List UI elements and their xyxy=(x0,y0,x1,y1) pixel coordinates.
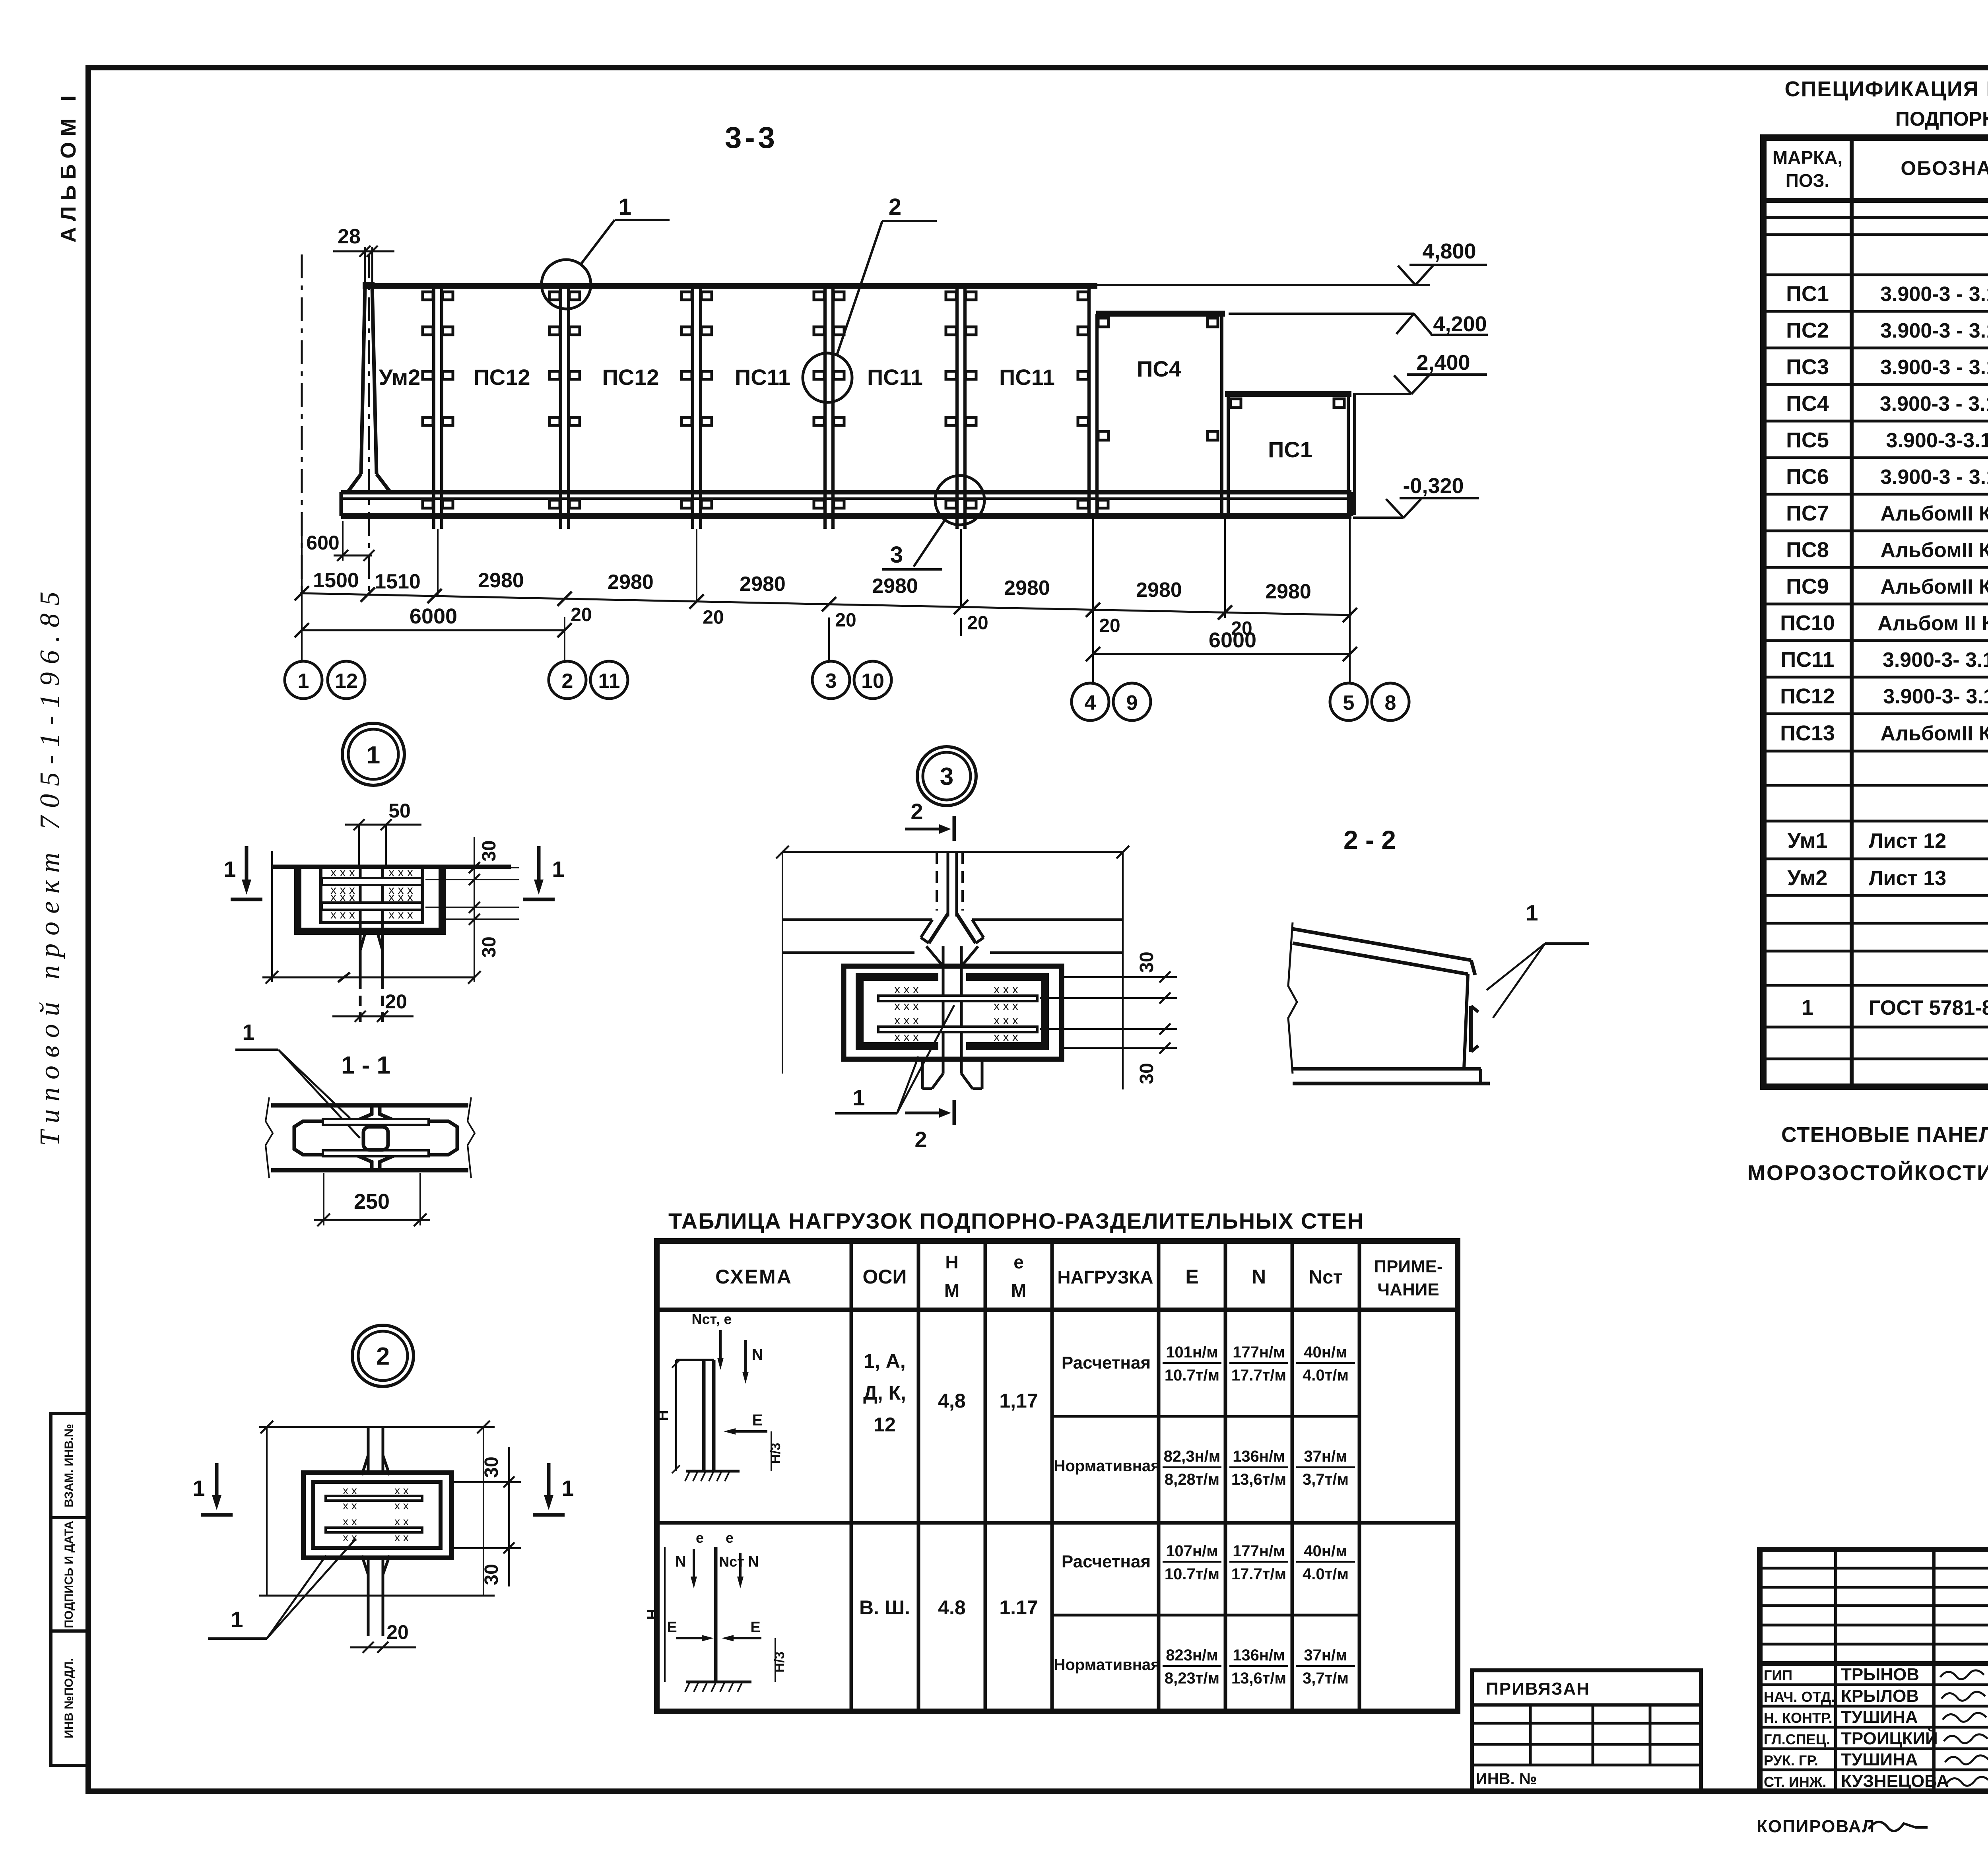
svg-text:4,8: 4,8 xyxy=(938,1390,966,1412)
detail 3 stakan outer xyxy=(844,966,1062,1059)
svg-text:АльбомII КЖИ-31.00: АльбомII КЖИ-31.00 xyxy=(1880,722,1988,745)
svg-text:СТЕНОВЫЕ ПАНЕЛИ ВЫПОЛНИТЬ И: СТЕНОВЫЕ ПАНЕЛИ ВЫПОЛНИТЬ ИЗ БЕТОНА С МА… xyxy=(1781,1122,1988,1147)
svg-text:30: 30 xyxy=(481,1564,502,1585)
panel joint at x=1752 xyxy=(691,286,694,529)
svg-text:6000: 6000 xyxy=(410,604,457,628)
elevation mark +4.200 xyxy=(1414,314,1431,334)
svg-text:ИНВ №ПОДЛ.: ИНВ №ПОДЛ. xyxy=(62,1658,76,1738)
spec table horizontal lines xyxy=(1763,216,1988,219)
svg-text:Нормативная: Нормативная xyxy=(1054,1656,1160,1674)
detail 3 stem through stakan xyxy=(942,946,945,1058)
svg-text:М: М xyxy=(944,1280,959,1301)
svg-text:N: N xyxy=(752,1346,763,1363)
svg-text:4.8: 4.8 xyxy=(938,1596,966,1619)
title block outer xyxy=(1760,1549,1988,1791)
detail 1 dim 20 stem xyxy=(332,1016,414,1017)
schema row1 H dim xyxy=(675,1360,677,1471)
monolith column Um2 xyxy=(361,286,365,474)
svg-text:x x x: x x x xyxy=(994,1000,1018,1013)
svg-text:x x x: x x x xyxy=(894,1000,919,1013)
schema row2 H dim xyxy=(664,1547,666,1682)
svg-text:2 - 2: 2 - 2 xyxy=(1343,825,1396,854)
detail circle 1 on section xyxy=(542,260,591,309)
panel joint at x=2417 xyxy=(955,286,959,529)
svg-text:ПРИМЕ-: ПРИМЕ- xyxy=(1374,1257,1442,1276)
svg-text:3,7т/м: 3,7т/м xyxy=(1303,1670,1349,1687)
detail 3 stem below stakan xyxy=(942,1059,945,1074)
svg-text:x x x: x x x xyxy=(388,908,413,921)
svg-text:12: 12 xyxy=(874,1414,896,1436)
svg-text:1: 1 xyxy=(1526,900,1538,925)
svg-text:x x: x x xyxy=(394,1499,409,1512)
svg-text:Лист 13: Лист 13 xyxy=(1869,867,1946,890)
svg-text:1: 1 xyxy=(367,742,380,769)
svg-text:x x x: x x x xyxy=(388,866,413,879)
section mark 2 bottom at detail 3 xyxy=(905,1112,939,1115)
left 6000 dim xyxy=(302,629,565,631)
detail 2 section marks 1 xyxy=(215,1463,219,1495)
privyazan table xyxy=(1472,1670,1701,1791)
schema row1 ground hatch xyxy=(686,1470,740,1473)
svg-text:РУК. ГР.: РУК. ГР. xyxy=(1764,1752,1818,1769)
svg-text:ПС10: ПС10 xyxy=(1780,611,1835,635)
svg-text:АЛЬБОМ I: АЛЬБОМ I xyxy=(56,90,80,243)
2-2 right end xyxy=(1471,960,1475,975)
svg-text:СХЕМА: СХЕМА xyxy=(715,1266,792,1288)
panel top line at +4.800 xyxy=(363,283,1097,289)
svg-text:1: 1 xyxy=(561,1476,574,1501)
svg-text:40н/м: 40н/м xyxy=(1304,1344,1347,1361)
2-2 connector bracket xyxy=(1469,1006,1473,1052)
svg-text:20: 20 xyxy=(967,613,988,634)
svg-text:ПС6: ПС6 xyxy=(1786,465,1829,489)
detail 3 panel joint verticals xyxy=(947,852,949,916)
detail 3 upper slab lines xyxy=(783,918,932,921)
svg-text:40н/м: 40н/м xyxy=(1304,1542,1347,1560)
svg-text:ПС2: ПС2 xyxy=(1786,318,1829,342)
svg-text:ПС12: ПС12 xyxy=(1780,684,1835,708)
2-2 left break xyxy=(1288,922,1297,1074)
svg-text:ГИП: ГИП xyxy=(1764,1667,1792,1683)
svg-text:8: 8 xyxy=(1385,691,1396,715)
svg-text:20: 20 xyxy=(386,1621,409,1643)
svg-text:Расчетная: Расчетная xyxy=(1062,1552,1151,1571)
svg-text:ПС7: ПС7 xyxy=(1786,501,1829,525)
svg-text:-0,320: -0,320 xyxy=(1403,474,1464,498)
svg-text:3.900-3 - 3.10.1 05.00: 3.900-3 - 3.10.1 05.00 xyxy=(1880,356,1988,379)
svg-text:20: 20 xyxy=(703,607,724,628)
detail 2 block inner xyxy=(313,1482,441,1548)
svg-text:ТРЫНОВ: ТРЫНОВ xyxy=(1841,1665,1919,1684)
svg-text:x x x: x x x xyxy=(330,908,355,921)
svg-text:1: 1 xyxy=(552,856,564,882)
svg-text:x x x: x x x xyxy=(894,1014,919,1027)
detail 3 right dims 30 xyxy=(1064,976,1177,978)
svg-text:ПС13: ПС13 xyxy=(1780,721,1835,745)
svg-text:30: 30 xyxy=(1136,1063,1157,1084)
load table subrow dividers xyxy=(1052,1415,1359,1418)
detail 2 dim 20 xyxy=(350,1647,416,1649)
detail 1 recess inner U xyxy=(321,868,423,922)
svg-text:3.900-3-3.10.1.05.00: 3.900-3-3.10.1.05.00 xyxy=(1886,429,1988,452)
svg-text:Н: Н xyxy=(945,1252,958,1272)
detail 1-1 panel band bottom line xyxy=(271,1168,468,1173)
svg-text:x x x: x x x xyxy=(388,891,413,904)
svg-text:136н/м: 136н/м xyxy=(1233,1647,1285,1664)
svg-text:Е: Е xyxy=(667,1619,677,1636)
schema row1 H/3 dim xyxy=(771,1431,772,1471)
svg-text:1 - 1: 1 - 1 xyxy=(341,1052,390,1079)
svg-text:Н: Н xyxy=(645,1609,661,1619)
svg-text:1: 1 xyxy=(1802,996,1813,1019)
dim 28 at column top xyxy=(364,247,366,283)
svg-text:ПС11: ПС11 xyxy=(735,365,790,390)
svg-text:ПОЗ.: ПОЗ. xyxy=(1786,170,1829,191)
svg-text:1: 1 xyxy=(231,1607,243,1632)
detail 3 stakan left cup xyxy=(860,977,938,1046)
svg-text:1: 1 xyxy=(619,194,631,220)
svg-text:3.900-3 - 3.10.1 05.00: 3.900-3 - 3.10.1 05.00 xyxy=(1880,283,1988,306)
axis circles 3 10 xyxy=(812,661,850,699)
svg-text:2980: 2980 xyxy=(872,575,918,598)
svg-text:ПС9: ПС9 xyxy=(1786,575,1829,598)
svg-text:2: 2 xyxy=(914,1127,927,1152)
svg-text:е: е xyxy=(1013,1252,1024,1272)
svg-text:ОБОЗНАЧЕНИЕ: ОБОЗНАЧЕНИЕ xyxy=(1901,157,1988,179)
column Um2 centerline xyxy=(368,254,370,592)
svg-text:3.900-3- 3.10.1-05.00: 3.900-3- 3.10.1-05.00 xyxy=(1883,649,1988,672)
detail 1-1 panel band top line xyxy=(271,1103,468,1108)
svg-text:Альбом II КЖИ-30.00: Альбом II КЖИ-30.00 xyxy=(1877,612,1988,635)
svg-text:ПС1: ПС1 xyxy=(1786,282,1829,306)
panel PS1 right edge xyxy=(1347,394,1350,515)
svg-text:30: 30 xyxy=(479,840,500,861)
schema sketch row1 wall xyxy=(702,1360,706,1471)
detail 3 tie bars xyxy=(878,996,1037,1001)
svg-text:ПОДПОРНО- РАЗДЕЛИТЕЛЬНЫХ СТЕН: ПОДПОРНО- РАЗДЕЛИТЕЛЬНЫХ СТЕН xyxy=(1895,108,1988,130)
svg-text:x x: x x xyxy=(343,1515,357,1528)
svg-text:2980: 2980 xyxy=(740,573,786,596)
svg-text:2980: 2980 xyxy=(608,571,654,594)
load table header bottom line xyxy=(657,1308,1458,1312)
detail 1-1 left panel end xyxy=(294,1106,372,1169)
svg-text:ПС11: ПС11 xyxy=(999,365,1055,390)
svg-text:Н/3: Н/3 xyxy=(768,1443,783,1464)
svg-text:АльбомII КЖИ-29.00: АльбомII КЖИ-29.00 xyxy=(1880,575,1988,598)
svg-text:ПС11: ПС11 xyxy=(867,365,923,390)
panel PS1 top line at +2.400 xyxy=(1225,391,1351,397)
svg-text:ТУШИНА: ТУШИНА xyxy=(1841,1750,1918,1769)
svg-text:8,28т/м: 8,28т/м xyxy=(1165,1471,1219,1488)
svg-text:3.900-3 - 3.10.1-05.00: 3.900-3 - 3.10.1-05.00 xyxy=(1880,392,1988,416)
svg-text:12: 12 xyxy=(335,670,358,693)
svg-text:1: 1 xyxy=(242,1019,254,1045)
detail 2 tie bars xyxy=(326,1496,422,1501)
title block main divider xyxy=(1760,1661,1988,1666)
svg-text:ПС12: ПС12 xyxy=(602,365,659,390)
svg-text:ПС3: ПС3 xyxy=(1786,355,1829,379)
foundation beam xyxy=(341,490,1351,495)
svg-text:Nст: Nст xyxy=(1309,1267,1343,1288)
svg-text:4.0т/м: 4.0т/м xyxy=(1303,1367,1349,1384)
svg-text:Ум2: Ум2 xyxy=(379,365,421,390)
svg-text:ПС1: ПС1 xyxy=(1268,437,1312,462)
axis circles 4 9 xyxy=(1072,683,1109,720)
2-2 sloped top lines xyxy=(1293,929,1471,960)
svg-text:600: 600 xyxy=(306,532,339,554)
detail 2 bottom dim line xyxy=(259,1595,495,1597)
personnel rows xyxy=(1760,1683,1988,1686)
svg-text:10.7т/м: 10.7т/м xyxy=(1165,1367,1219,1384)
svg-text:3: 3 xyxy=(890,542,903,568)
svg-text:20: 20 xyxy=(385,990,407,1013)
svg-text:2: 2 xyxy=(376,1343,390,1370)
svg-text:3: 3 xyxy=(940,763,953,790)
svg-text:250: 250 xyxy=(354,1190,390,1214)
detail 1-1 central void xyxy=(363,1127,388,1150)
svg-text:x x x: x x x xyxy=(330,891,355,904)
svg-text:x x x: x x x xyxy=(894,1031,919,1044)
svg-text:136н/м: 136н/м xyxy=(1233,1448,1285,1465)
svg-text:ПС5: ПС5 xyxy=(1786,428,1829,452)
svg-text:ТАБЛИЦА НАГРУЗОК ПОДПОРНО-РА: ТАБЛИЦА НАГРУЗОК ПОДПОРНО-РАЗДЕЛИТЕЛЬНЫХ… xyxy=(668,1208,1364,1233)
svg-text:37н/м: 37н/м xyxy=(1304,1448,1347,1465)
svg-text:x x x: x x x xyxy=(330,866,355,879)
dim 600 xyxy=(334,555,372,557)
svg-text:ГЛ.СПЕЦ.: ГЛ.СПЕЦ. xyxy=(1764,1731,1830,1748)
detail 1 recess outer U xyxy=(298,868,442,931)
detail 2 right dims 30 xyxy=(453,1481,521,1483)
svg-text:ОСИ: ОСИ xyxy=(863,1266,907,1288)
axis circles 5 8 xyxy=(1330,683,1367,720)
svg-text:СПЕЦИФИКАЦИЯ К СХЕМЕ РАСПОЛО: СПЕЦИФИКАЦИЯ К СХЕМЕ РАСПОЛОЖЕНИЯ СТЕНОВ… xyxy=(1784,77,1988,101)
svg-text:1, А,: 1, А, xyxy=(864,1350,906,1372)
svg-text:3.900-3- 3.10.1 05.00: 3.900-3- 3.10.1 05.00 xyxy=(1883,685,1988,708)
svg-text:50: 50 xyxy=(388,800,411,822)
svg-text:Н/3: Н/3 xyxy=(772,1652,787,1673)
svg-text:3: 3 xyxy=(825,670,837,693)
svg-text:28: 28 xyxy=(338,225,361,248)
svg-text:НАЧ. ОТД.: НАЧ. ОТД. xyxy=(1764,1689,1835,1705)
svg-text:11: 11 xyxy=(598,670,620,693)
svg-text:x x x: x x x xyxy=(994,983,1018,996)
level line -0.320 xyxy=(1353,516,1404,519)
svg-text:Н. КОНТР.: Н. КОНТР. xyxy=(1764,1710,1833,1726)
svg-text:ПС4: ПС4 xyxy=(1137,356,1181,381)
svg-text:1: 1 xyxy=(223,856,236,882)
svg-text:2980: 2980 xyxy=(1265,580,1311,603)
svg-text:x x: x x xyxy=(394,1484,409,1497)
svg-text:2,400: 2,400 xyxy=(1416,351,1470,375)
dim 50 at detail 1 xyxy=(345,824,421,826)
svg-text:20: 20 xyxy=(835,610,856,631)
svg-text:Ум1: Ум1 xyxy=(1788,829,1828,852)
svg-text:N: N xyxy=(1252,1266,1266,1288)
svg-text:Е: Е xyxy=(750,1619,760,1636)
svg-text:НАГРУЗКА: НАГРУЗКА xyxy=(1057,1267,1153,1287)
detail 2 block outer xyxy=(303,1473,452,1558)
schema row2 ground hatch xyxy=(686,1681,751,1683)
detail 1-1 left break xyxy=(266,1097,273,1178)
svg-text:Д, К,: Д, К, xyxy=(863,1382,906,1404)
svg-text:4.0т/м: 4.0т/м xyxy=(1303,1565,1349,1583)
detail circle 3 on section xyxy=(935,476,984,525)
svg-text:10.7т/м: 10.7т/м xyxy=(1165,1565,1219,1583)
svg-text:М: М xyxy=(1011,1280,1026,1301)
detail 3 stakan right cup xyxy=(966,977,1045,1046)
detail 1-1 right panel end xyxy=(380,1106,457,1169)
svg-text:37н/м: 37н/м xyxy=(1304,1647,1347,1664)
svg-text:13,6т/м: 13,6т/м xyxy=(1231,1670,1286,1687)
load table column lines xyxy=(850,1241,853,1711)
spec table column lines xyxy=(1850,138,1854,1087)
detail 2 stem upper xyxy=(367,1427,370,1473)
svg-text:20: 20 xyxy=(571,604,592,625)
svg-text:2980: 2980 xyxy=(1004,577,1050,600)
svg-text:x x x: x x x xyxy=(994,1031,1018,1044)
spec table header row line xyxy=(1763,198,1988,203)
svg-text:x x: x x xyxy=(343,1484,357,1497)
svg-text:ЧАНИЕ: ЧАНИЕ xyxy=(1377,1280,1439,1299)
svg-text:823н/м: 823н/м xyxy=(1166,1647,1218,1664)
svg-text:N: N xyxy=(748,1553,759,1570)
svg-text:4: 4 xyxy=(1085,691,1096,715)
svg-text:1.17: 1.17 xyxy=(999,1596,1038,1619)
svg-text:1: 1 xyxy=(298,670,309,693)
svg-text:Лист 12: Лист 12 xyxy=(1869,829,1946,852)
svg-text:2980: 2980 xyxy=(478,569,524,592)
panel PS4 top line at +4.200 xyxy=(1096,311,1225,317)
svg-text:x x: x x xyxy=(343,1499,357,1512)
svg-text:17.7т/м: 17.7т/м xyxy=(1231,1565,1286,1583)
svg-text:Е: Е xyxy=(752,1412,763,1429)
elevation mark +2.400 xyxy=(1411,375,1429,394)
svg-text:6000: 6000 xyxy=(1209,628,1256,652)
svg-text:5: 5 xyxy=(1343,691,1355,715)
detail 3 top extension line xyxy=(782,851,1123,853)
svg-text:ПОДПИСЬ И ДАТА: ПОДПИСЬ И ДАТА xyxy=(62,1521,76,1628)
joint PS4/PS1 xyxy=(1220,314,1223,515)
svg-text:ПС11: ПС11 xyxy=(1781,648,1835,672)
svg-text:КРЫЛОВ: КРЫЛОВ xyxy=(1841,1686,1919,1706)
svg-text:КУЗНЕЦОВА: КУЗНЕЦОВА xyxy=(1841,1771,1949,1791)
svg-text:КОПИРОВАЛ: КОПИРОВАЛ xyxy=(1757,1817,1875,1836)
detail 1 bottom dim line xyxy=(271,851,273,982)
detail circle 2 on section xyxy=(803,353,852,402)
detail 3 bubble xyxy=(917,747,976,806)
svg-text:1: 1 xyxy=(852,1085,865,1110)
svg-text:2: 2 xyxy=(911,799,923,824)
detail 1 section marks 1-1 xyxy=(245,846,248,880)
svg-text:2: 2 xyxy=(562,670,573,693)
svg-text:ВЗАМ. ИНВ.№: ВЗАМ. ИНВ.№ xyxy=(62,1424,76,1507)
svg-text:е: е xyxy=(696,1530,704,1546)
axis circles 2 11 xyxy=(549,661,586,699)
detail 3 second slab lines xyxy=(783,951,914,954)
detail 1 connector bar lower xyxy=(322,903,422,910)
svg-text:30: 30 xyxy=(481,1456,502,1478)
detail 1 right dim 30-30 xyxy=(445,867,519,868)
svg-text:СТ. ИНЖ.: СТ. ИНЖ. xyxy=(1764,1774,1826,1790)
left margin stamp strip xyxy=(51,1414,88,1765)
svg-text:ИНВ. №: ИНВ. № xyxy=(1476,1770,1537,1788)
panel joint at x=1420 xyxy=(559,286,562,529)
svg-text:ТУШИНА: ТУШИНА xyxy=(1841,1707,1918,1727)
svg-text:20: 20 xyxy=(1099,615,1120,636)
svg-text:177н/м: 177н/м xyxy=(1233,1344,1285,1361)
svg-text:ПС8: ПС8 xyxy=(1786,538,1829,562)
svg-text:МАРКА,: МАРКА, xyxy=(1773,147,1842,168)
detail 3 funnel upper xyxy=(929,914,948,943)
detail 1 panel stem below xyxy=(359,931,362,979)
svg-text:x x x: x x x xyxy=(894,983,919,996)
svg-text:10: 10 xyxy=(861,670,884,693)
svg-text:ПРИВЯЗАН: ПРИВЯЗАН xyxy=(1486,1679,1590,1699)
svg-text:В. Ш.: В. Ш. xyxy=(859,1596,910,1619)
svg-text:30: 30 xyxy=(1136,951,1157,973)
svg-text:ТРОИЦКИЙ: ТРОИЦКИЙ xyxy=(1841,1728,1938,1748)
svg-text:x x x: x x x xyxy=(994,1014,1018,1027)
axis 1 dash-dot line xyxy=(301,254,303,592)
svg-text:1500: 1500 xyxy=(313,569,359,592)
schema sketch row2 wall xyxy=(714,1547,718,1682)
svg-text:82,3н/м: 82,3н/м xyxy=(1164,1448,1221,1465)
svg-text:3.900-3 - 3.10.1 05.00: 3.900-3 - 3.10.1 05.00 xyxy=(1880,319,1988,342)
svg-text:4,800: 4,800 xyxy=(1422,239,1476,263)
svg-text:1,17: 1,17 xyxy=(999,1390,1038,1412)
svg-text:101н/м: 101н/м xyxy=(1166,1344,1218,1361)
svg-text:30: 30 xyxy=(479,936,500,957)
elevation mark +4.800 xyxy=(1415,266,1433,285)
title block mini grid columns xyxy=(1834,1549,1837,1791)
svg-text:АльбомII КЖИ-29.00: АльбомII КЖИ-29.00 xyxy=(1880,539,1988,562)
svg-text:1510: 1510 xyxy=(375,570,421,593)
svg-text:4,200: 4,200 xyxy=(1433,312,1487,336)
svg-text:x x: x x xyxy=(394,1515,409,1528)
svg-text:Нормативная: Нормативная xyxy=(1054,1457,1160,1475)
panel joint at x=2085 xyxy=(823,286,827,529)
svg-text:3-3: 3-3 xyxy=(725,121,778,155)
svg-text:ПС12: ПС12 xyxy=(474,365,530,390)
detail 1-1 connector bars xyxy=(323,1119,429,1125)
svg-text:107н/м: 107н/м xyxy=(1166,1542,1218,1560)
svg-text:x x: x x xyxy=(343,1531,357,1544)
svg-text:МОРОЗОСТОЙКОСТИ НЕ НИЖЕ Мрз7: МОРОЗОСТОЙКОСТИ НЕ НИЖЕ Мрз75. xyxy=(1747,1161,1988,1185)
right 6000 dim xyxy=(1093,653,1350,655)
detail 1-1 right break xyxy=(468,1097,475,1178)
elevation mark -0.320 xyxy=(1404,499,1421,518)
svg-text:2980: 2980 xyxy=(1136,579,1182,602)
svg-text:177н/м: 177н/м xyxy=(1233,1542,1285,1560)
load table main row divider xyxy=(657,1521,1458,1525)
svg-text:Е: Е xyxy=(1185,1266,1198,1288)
detail 2 top extension line xyxy=(259,1426,495,1428)
svg-text:Типовой проект 705-1-196.85: Типовой проект 705-1-196.85 xyxy=(35,584,65,1146)
detail 1 bubble xyxy=(342,723,404,785)
detail 1-1 dim 250 xyxy=(323,1173,324,1225)
detail 1 connector bar upper xyxy=(322,878,422,885)
schema row2 H/3 dim xyxy=(775,1638,776,1682)
svg-text:АльбомII КЖИ-30.00: АльбомII КЖИ-30.00 xyxy=(1880,502,1988,525)
detail 1 top slab line xyxy=(273,865,511,869)
detail 1 stem lines inside recess xyxy=(359,868,362,931)
panel joint at x=1101 xyxy=(432,286,435,529)
load table outer box xyxy=(657,1241,1458,1711)
svg-text:Nст, е: Nст, е xyxy=(692,1311,732,1327)
axis extension lines xyxy=(301,517,303,661)
svg-text:N: N xyxy=(675,1553,686,1570)
dimension chain row xyxy=(300,593,1351,615)
